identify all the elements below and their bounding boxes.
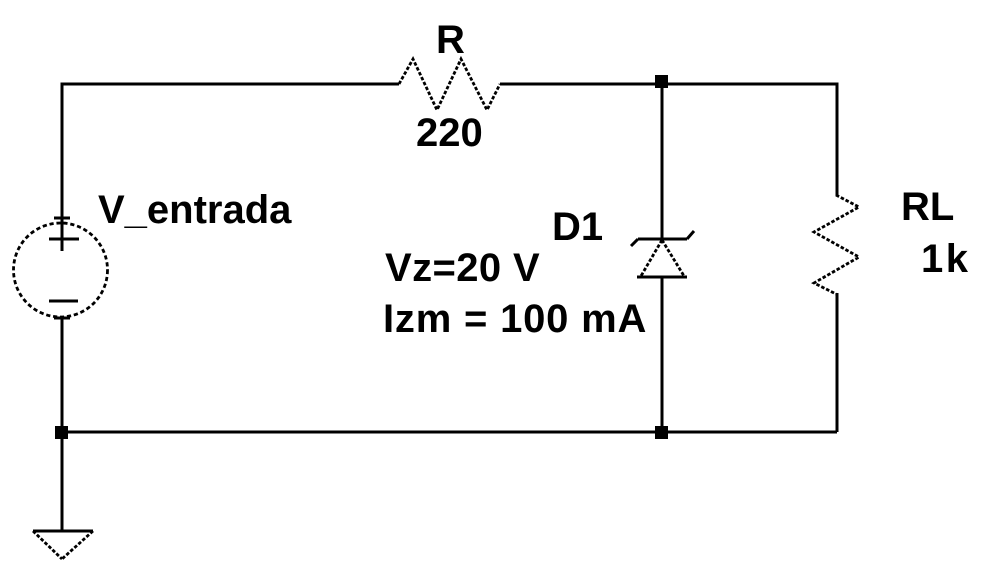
svg-text:RL: RL [901,185,954,229]
svg-text:1k: 1k [921,237,971,281]
svg-text:220: 220 [416,111,483,155]
svg-text:Izm = 100 mA: Izm = 100 mA [383,297,647,341]
svg-text:D1: D1 [552,205,603,249]
svg-text:R: R [436,18,465,62]
svg-text:Vz=20 V: Vz=20 V [385,246,540,290]
svg-text:V_entrada: V_entrada [98,188,292,232]
